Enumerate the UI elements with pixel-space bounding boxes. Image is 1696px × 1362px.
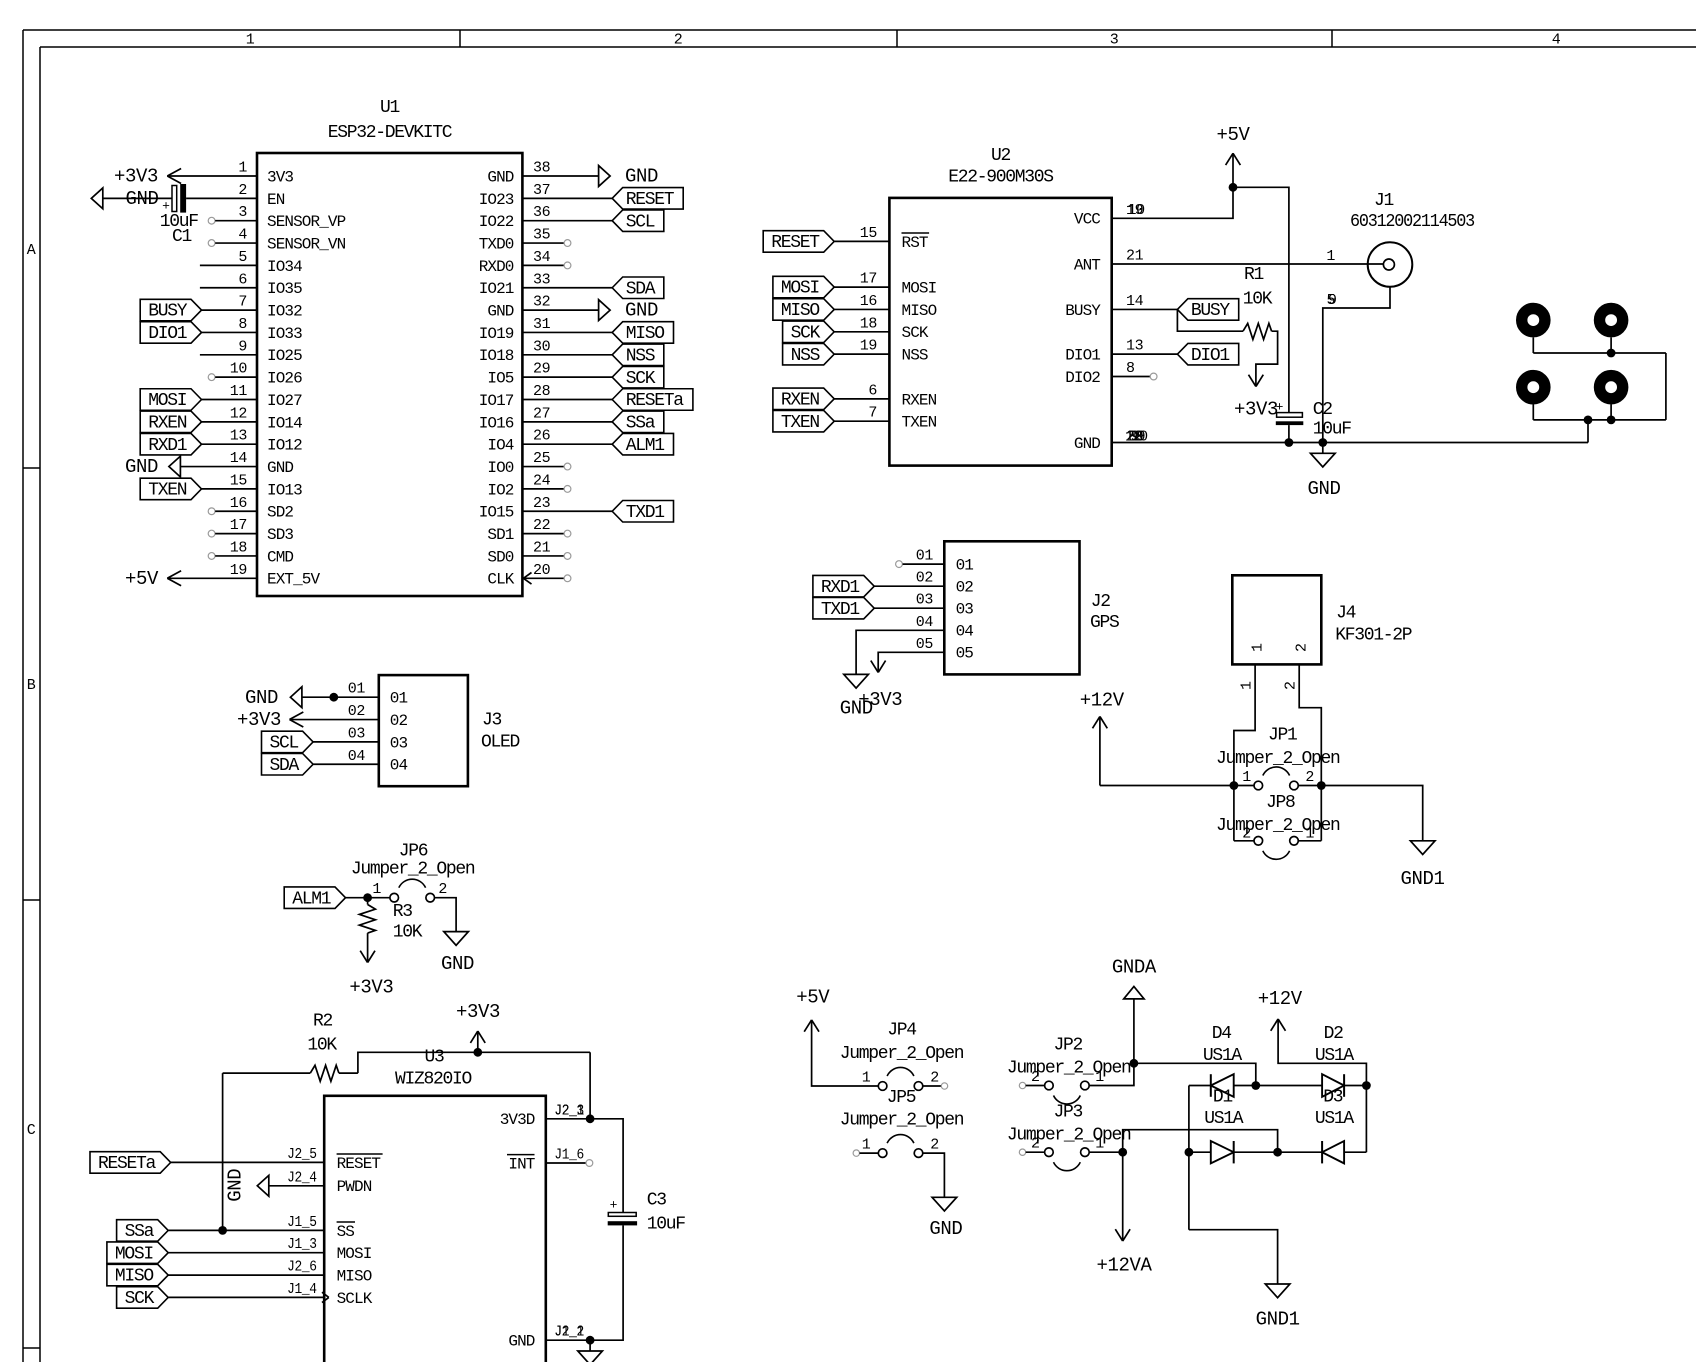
svg-text:SCK: SCK (626, 369, 656, 389)
svg-text:SENSOR_VP: SENSOR_VP (267, 213, 346, 231)
wire JP2 pin 1 to GNDA node (1089, 1063, 1134, 1085)
wire U1 pin 8 (202, 331, 258, 333)
wire U2 pin 7 (834, 420, 889, 422)
net label TXD1 at U1 pin 23 (612, 501, 673, 523)
svg-text:US1A: US1A (1315, 1046, 1355, 1066)
svg-text:GND: GND (487, 168, 513, 186)
svg-text:31: 31 (533, 316, 551, 333)
svg-text:10K: 10K (1243, 290, 1273, 310)
U1 left pin numbers (230, 160, 248, 579)
svg-text:RESETa: RESETa (626, 391, 685, 411)
svg-text:JP3: JP3 (1054, 1103, 1083, 1123)
U1 left pin names (267, 168, 346, 588)
svg-text:27: 27 (533, 405, 550, 422)
svg-text:CLK: CLK (487, 571, 514, 589)
svg-text:RST: RST (902, 234, 928, 252)
net label SCK at U3 (117, 1287, 169, 1309)
net label RXEN at U2 pin 6 (773, 388, 834, 410)
svg-text:6: 6 (238, 271, 247, 288)
svg-text:A: A (27, 242, 36, 259)
jumper JP5 (862, 1135, 939, 1158)
junction diode row 1 right (1362, 1081, 1371, 1090)
svg-text:18: 18 (860, 315, 878, 332)
wire J3 pin 04 (313, 763, 379, 765)
svg-text:15: 15 (230, 472, 248, 489)
svg-text:INT: INT (508, 1155, 534, 1173)
svg-text:GND: GND (267, 459, 293, 477)
svg-text:+3V3: +3V3 (114, 166, 158, 188)
svg-text:GND: GND (245, 687, 278, 709)
svg-text:IO25: IO25 (267, 347, 302, 365)
svg-text:IO2: IO2 (487, 481, 513, 499)
U1 pin 22 unconnected stub (522, 530, 570, 537)
junction +3V3 rail (473, 1048, 482, 1057)
svg-text:D4: D4 (1212, 1024, 1232, 1044)
svg-text:RXD0: RXD0 (479, 258, 514, 276)
svg-text:38: 38 (533, 160, 551, 177)
svg-text:23: 23 (533, 495, 551, 512)
wire U3 SS pin (168, 1229, 324, 1231)
wire U2 pin 16 (834, 308, 889, 310)
wire +12VA node over to diode row 2 (1123, 1130, 1278, 1153)
wire U1 pin 26 (522, 443, 612, 445)
junction JP1 pin 2 (1317, 781, 1326, 790)
svg-text:01: 01 (956, 557, 974, 575)
JP2 pin 2 unconnected stub (1019, 1082, 1044, 1088)
power +3V3 below R3 (349, 951, 393, 999)
svg-text:+: + (610, 1198, 618, 1213)
svg-text:Jumper_2_Open: Jumper_2_Open (1007, 1059, 1131, 1079)
svg-text:10K: 10K (307, 1036, 337, 1056)
svg-text:R2: R2 (313, 1012, 333, 1032)
resistor R1 (1177, 265, 1277, 387)
svg-text:2: 2 (1031, 1136, 1040, 1153)
wire U2 pin 17 (834, 286, 889, 288)
U2 GND overlapping pin numbers (1125, 429, 1148, 446)
power GND below U3 (578, 1340, 603, 1362)
svg-text:02: 02 (390, 712, 408, 730)
wire U1 pin 2 (103, 197, 257, 199)
svg-text:GND: GND (508, 1333, 534, 1351)
svg-text:14: 14 (1126, 293, 1144, 310)
svg-text:IO14: IO14 (267, 414, 302, 432)
mounting hole pad MK3 (1522, 376, 1545, 399)
svg-text:2: 2 (930, 1137, 939, 1154)
svg-text:05: 05 (956, 645, 974, 663)
svg-text:TXD0: TXD0 (479, 235, 514, 253)
resistor R3 (359, 898, 422, 963)
wire U2 ANT to J1 (1112, 263, 1384, 265)
svg-text:J4: J4 (1336, 604, 1356, 624)
wire U1 pin 11 (202, 399, 258, 401)
svg-text:J1_4: J1_4 (287, 1281, 317, 1298)
svg-text:GND: GND (1074, 435, 1100, 453)
svg-text:2: 2 (1283, 681, 1300, 690)
wire U1 pin 36 (522, 220, 612, 222)
junction row 2 centre (1273, 1148, 1282, 1157)
svg-text:JP4: JP4 (887, 1021, 916, 1041)
net label DIO1 at U1 pin 8 (140, 322, 201, 344)
wire U1 pin 30 (522, 354, 612, 356)
power +3V3 below J2 (858, 661, 902, 711)
svg-text:+5V: +5V (1216, 124, 1250, 146)
svg-text:NSS: NSS (626, 346, 655, 366)
wire diode row 1 (1189, 1085, 1367, 1087)
wire R2 to 3V3 rail (358, 1052, 590, 1073)
wire +12V to JP1 pin 1 (1100, 785, 1234, 787)
power +12VA below JP3 (1096, 1152, 1152, 1276)
svg-text:01: 01 (916, 548, 934, 565)
svg-text:J1_6: J1_6 (554, 1147, 584, 1164)
svg-text:+3V3: +3V3 (456, 1001, 500, 1023)
power GND1 below diodes (1256, 1284, 1300, 1331)
power +3V3 at U1 pin 1 (114, 166, 181, 188)
svg-text:1: 1 (238, 160, 247, 177)
svg-text:US1A: US1A (1203, 1046, 1243, 1066)
svg-text:32: 32 (533, 294, 550, 311)
svg-text:SD3: SD3 (267, 526, 293, 544)
svg-text:Jumper_2_Open: Jumper_2_Open (840, 1044, 964, 1064)
svg-text:16: 16 (230, 495, 248, 512)
power +5V at JP4 (796, 987, 830, 1032)
U2 DIO2 unconnected stub (1112, 373, 1157, 380)
svg-text:IO15: IO15 (479, 504, 514, 522)
power GND1 below JP1 (1400, 841, 1444, 890)
net label TXD1 at J2 pin 03 (813, 597, 874, 619)
svg-text:B: B (27, 677, 36, 694)
U2 pin 14 number (1126, 293, 1144, 310)
svg-text:J1: J1 (1374, 191, 1394, 211)
svg-text:1: 1 (372, 881, 381, 898)
net label RXEN at U1 pin 12 (140, 411, 201, 433)
U1 pin 16 unconnected stub (208, 508, 257, 515)
wire U2 pin 18 (834, 331, 889, 333)
svg-text:20: 20 (533, 562, 551, 579)
jumper JP8 (1234, 826, 1321, 860)
svg-text:05: 05 (916, 636, 934, 653)
svg-text:29: 29 (533, 361, 550, 378)
U3 left pin names and numbers (287, 1146, 383, 1308)
svg-text:1: 1 (1095, 1069, 1104, 1086)
svg-text:GND1: GND1 (1256, 1309, 1300, 1331)
net label MOSI at U2 pin 17 (773, 276, 834, 298)
svg-text:03: 03 (956, 601, 974, 619)
svg-text:8: 8 (238, 316, 247, 333)
svg-text:04: 04 (390, 757, 408, 775)
svg-text:MOSI: MOSI (781, 279, 820, 299)
svg-text:Jumper_2_Open: Jumper_2_Open (1007, 1126, 1131, 1146)
svg-text:D2: D2 (1324, 1024, 1344, 1044)
svg-text:2: 2 (1305, 769, 1314, 786)
svg-text:+12VA: +12VA (1096, 1255, 1152, 1277)
svg-text:11: 11 (230, 383, 248, 400)
svg-text:+5V: +5V (796, 987, 830, 1009)
jumper JP5 labels (840, 1088, 964, 1131)
svg-text:GNDA: GNDA (1112, 957, 1157, 979)
power GND at U1 pin 32 (599, 300, 658, 322)
svg-text:ANT: ANT (1074, 256, 1100, 274)
svg-text:ESP32-DEVKITC: ESP32-DEVKITC (328, 123, 453, 143)
wire diode row 2 (1189, 1151, 1367, 1153)
J2 pin 01 unconnected stub (896, 561, 945, 568)
connector J4 KF301-2P box (1232, 575, 1321, 664)
svg-text:2: 2 (674, 32, 683, 49)
net label ALM1 at U1 pin 26 (612, 433, 673, 455)
svg-text:IO27: IO27 (267, 392, 302, 410)
J4 rotated pin numbers (1239, 681, 1300, 690)
wire U1 pin 32 (522, 309, 598, 311)
net label BUSY at U2 pin 14 (1177, 299, 1238, 321)
JP4 pin 2 unconnected stub (923, 1083, 948, 1089)
power +3V3 above U3 (456, 1001, 500, 1052)
svg-text:1: 1 (246, 32, 255, 49)
svg-text:04: 04 (348, 748, 366, 765)
U2 reference and value (948, 146, 1053, 188)
wire 3V3D to C3 (590, 1119, 623, 1213)
wire U2 DIO1 pin (1112, 353, 1178, 355)
U1 pin 18 unconnected stub (208, 553, 257, 560)
wire U2 VCC to +5V (1112, 187, 1233, 218)
svg-text:14: 14 (230, 450, 248, 467)
svg-text:3: 3 (1110, 32, 1119, 49)
J2 reference and value (1090, 592, 1119, 633)
op-amp U1 ESP32-DEVKITC box (257, 153, 522, 596)
net label RESET at U2 pin 15 (763, 231, 834, 253)
svg-text:J1_1: J1_1 (554, 1324, 584, 1341)
svg-text:21: 21 (1126, 248, 1144, 265)
svg-text:IO32: IO32 (267, 303, 302, 321)
svg-text:04: 04 (956, 623, 974, 641)
svg-text:21: 21 (533, 539, 551, 556)
jumper JP1 labels (1216, 726, 1340, 770)
svg-text:J2_4: J2_4 (287, 1169, 317, 1186)
svg-text:03: 03 (916, 592, 934, 609)
connector J1 60312002114503 (1350, 191, 1474, 287)
svg-text:SSa: SSa (125, 1222, 155, 1242)
wire diode row 1 to row 2 left (1188, 1086, 1190, 1230)
svg-text:U1: U1 (380, 98, 400, 118)
svg-text:DIO1: DIO1 (1065, 347, 1100, 365)
net label SDA at U1 pin 33 (612, 277, 664, 299)
svg-text:SS: SS (337, 1223, 355, 1241)
svg-text:RESETa: RESETa (98, 1154, 157, 1174)
wire U3 MOSI pin (168, 1252, 324, 1254)
svg-text:RESET: RESET (771, 233, 820, 253)
wire U1 pin 33 (522, 287, 612, 289)
U1 pin 20 unconnected stub (522, 575, 570, 582)
wire U1 pin 14 (180, 466, 257, 468)
wire ALM1 to JP6 pin 1 (346, 897, 390, 899)
U1 pin 25 unconnected stub (522, 463, 570, 470)
junction row 2 left (1185, 1148, 1194, 1157)
U3 SCLK clock mark (322, 1292, 329, 1302)
U2 pin 13 number (1126, 338, 1144, 355)
net label TXEN at U1 pin 15 (140, 478, 201, 500)
svg-text:IO5: IO5 (487, 370, 513, 388)
svg-text:IO17: IO17 (479, 392, 514, 410)
wire R2 down to SSa net (222, 1073, 224, 1230)
svg-text:CMD: CMD (267, 548, 293, 566)
diode D3 US1A (1315, 1088, 1355, 1164)
svg-text:1: 1 (1095, 1136, 1104, 1153)
svg-text:12: 12 (230, 405, 247, 422)
net label MISO at U1 pin 31 (612, 322, 673, 344)
wire U2 pin 15 (834, 240, 889, 242)
svg-text:GND: GND (625, 300, 658, 322)
net label MISO at U3 (107, 1264, 168, 1286)
wire J2 pin 04 to GND (856, 630, 944, 674)
connector J2 GPS box (944, 541, 1079, 674)
IC U3 WIZ820IO box (324, 1096, 546, 1362)
svg-text:US1A: US1A (1204, 1109, 1244, 1129)
wire JP1 pin 2 to GND1 (1321, 786, 1422, 841)
junction GND symbol node (1318, 438, 1327, 447)
wire U2 pin 19 (834, 353, 889, 355)
svg-text:22: 22 (533, 517, 550, 534)
svg-text:37: 37 (533, 182, 550, 199)
svg-text:01: 01 (390, 690, 408, 708)
wire J3 pin 03 (313, 741, 379, 743)
power GND at U3 PWDN pin (225, 1169, 269, 1202)
net label SSa at U3 (117, 1220, 169, 1242)
JP3 pin 2 unconnected stub (1019, 1149, 1044, 1155)
svg-text:2: 2 (930, 1070, 939, 1087)
diode D1 US1A (1204, 1088, 1244, 1164)
svg-text:1: 1 (862, 1070, 871, 1087)
wire 3V3 rail to U3 3V3D pin (589, 1052, 591, 1119)
svg-text:2: 2 (238, 182, 247, 199)
J4 rotated pin names (1250, 643, 1311, 652)
svg-text:BUSY: BUSY (1191, 301, 1231, 321)
wire U1 pin 38 (522, 175, 598, 177)
net label RESETa at U1 pin 28 (612, 389, 693, 411)
svg-text:10: 10 (1128, 202, 1146, 219)
svg-text:RESET: RESET (337, 1155, 381, 1173)
wire J3 pin 01 (302, 696, 379, 698)
junction R3 tap (363, 893, 372, 902)
svg-text:J2_5: J2_5 (287, 1146, 317, 1163)
jumper JP6 (372, 879, 447, 902)
U3 right pin names and numbers (500, 1102, 585, 1350)
svg-text:JP6: JP6 (399, 842, 428, 862)
jumper JP1 (1234, 767, 1321, 790)
power GND below JP6 (441, 932, 474, 975)
svg-text:GND: GND (441, 953, 474, 975)
svg-text:SCK: SCK (902, 324, 929, 342)
U1 pin 3 unconnected stub (208, 217, 257, 224)
svg-text:02: 02 (956, 579, 974, 597)
svg-text:SCLK: SCLK (337, 1290, 373, 1308)
svg-text:13: 13 (230, 428, 248, 445)
net label RESETa at U3 (90, 1152, 171, 1174)
net label ALM1 at JP6 (284, 887, 345, 909)
svg-text:3: 3 (238, 204, 247, 221)
svg-text:GND: GND (929, 1218, 962, 1240)
net label SCK at U2 pin 18 (783, 321, 835, 343)
svg-text:28: 28 (533, 383, 551, 400)
diode D4 US1A (1203, 1024, 1243, 1097)
wire U1 pin 9 stub (200, 354, 257, 356)
svg-text:C1: C1 (172, 227, 192, 247)
wire U1 pin 5 stub (200, 264, 257, 266)
power GND below JP5 (929, 1197, 962, 1240)
svg-text:35: 35 (533, 227, 551, 244)
svg-text:GND: GND (625, 166, 658, 188)
wire U3 RESET pin (171, 1161, 325, 1163)
capacitor C3 (608, 1191, 686, 1235)
U1 pin 35 unconnected stub (522, 240, 570, 247)
power +3V3 at J3 pin 02 (237, 709, 303, 731)
wire U1 pin 13 (202, 443, 258, 445)
wire U3 GND pin (546, 1339, 590, 1341)
net label SCL at J3 pin 03 (262, 731, 314, 753)
svg-text:26: 26 (533, 428, 551, 445)
junction SSa-R2 (218, 1226, 227, 1235)
svg-text:+3V3: +3V3 (237, 709, 281, 731)
svg-text:3V3D: 3V3D (500, 1111, 535, 1129)
U3 INT unconnected stub (546, 1160, 593, 1167)
J4 reference and value (1335, 604, 1412, 646)
svg-text:TXEN: TXEN (902, 414, 937, 432)
svg-text:30: 30 (533, 338, 551, 355)
wire U3 MISO pin (168, 1274, 324, 1276)
net label SDA at J3 pin 04 (262, 754, 314, 776)
junction GND riser (1584, 416, 1593, 425)
svg-text:10uF: 10uF (1313, 420, 1352, 440)
wire U1 pin 12 (202, 421, 258, 423)
svg-text:D3: D3 (1323, 1088, 1343, 1108)
svg-text:01: 01 (348, 681, 366, 698)
svg-text:TXEN: TXEN (148, 481, 187, 501)
connector J3 OLED box (379, 675, 468, 786)
svg-text:SCK: SCK (125, 1289, 155, 1309)
wire J2 pin 02 (874, 585, 944, 587)
junction on J3 pin 01 wire (329, 693, 338, 702)
svg-text:SDA: SDA (270, 756, 300, 776)
svg-text:36: 36 (533, 204, 551, 221)
svg-text:PWDN: PWDN (337, 1178, 372, 1196)
net label NSS at U1 pin 30 (612, 344, 664, 366)
junction JP1 pin 1 (1230, 781, 1239, 790)
svg-text:9: 9 (1328, 292, 1337, 309)
svg-text:+12V: +12V (1258, 988, 1303, 1010)
svg-text:ALM1: ALM1 (626, 436, 665, 456)
net label SCL at U1 pin 36 (612, 210, 664, 232)
svg-text:MOSI: MOSI (337, 1245, 372, 1263)
net label SSa at U1 pin 27 (612, 411, 664, 433)
J3 reference and value (481, 711, 520, 753)
svg-text:8: 8 (1126, 360, 1135, 377)
svg-text:J2_1: J2_1 (554, 1102, 584, 1119)
svg-text:1: 1 (1250, 643, 1267, 652)
junction +12VA node (1118, 1148, 1127, 1157)
power GND at J3 pin 01 (245, 687, 302, 709)
wire U1 pin 29 (522, 376, 612, 378)
svg-text:C: C (27, 1122, 36, 1139)
svg-text:+3V3: +3V3 (858, 689, 902, 711)
svg-text:10K: 10K (393, 923, 423, 943)
svg-text:JP1: JP1 (1268, 726, 1297, 746)
wire J4 pin 2 to JP1 (1299, 664, 1321, 840)
U2 right pin names (1065, 211, 1101, 453)
jumper JP4 (862, 1067, 939, 1090)
wire J2 pin 03 (874, 607, 944, 609)
power GND at U1 pin 14 (125, 456, 180, 478)
wire J2 pin 05 to +3V3 (878, 652, 944, 672)
wire C2 to GND line (1288, 425, 1290, 442)
net label MISO at U2 pin 16 (773, 299, 834, 321)
svg-text:1: 1 (1326, 248, 1335, 265)
